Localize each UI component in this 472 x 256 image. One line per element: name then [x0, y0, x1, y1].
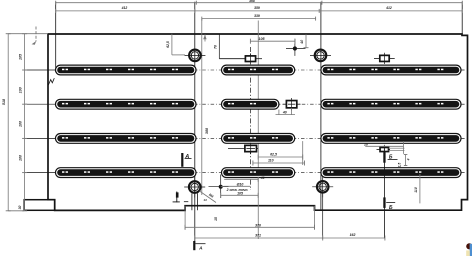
svg-text:Б: Б [389, 205, 393, 211]
dimension 371 and 162 bottom [195, 237, 385, 239]
row 4 centerline left [24, 172, 57, 174]
section marker A upper [181, 153, 191, 167]
dimension line top chain upper [56, 2, 463, 4]
slot row3 left [56, 134, 197, 144]
svg-text:110: 110 [414, 187, 418, 193]
extension below right bottom hole [322, 193, 324, 239]
slot row2 middle [222, 99, 279, 109]
section marker Б lower [383, 197, 395, 210]
row 3 centerline middle gap [194, 137, 224, 139]
svg-text:Ø10: Ø10 [237, 182, 244, 186]
svg-text:62,5: 62,5 [166, 41, 170, 48]
slot row1 middle [222, 65, 295, 75]
dimension line 339 [202, 18, 316, 20]
slot row3 right [321, 134, 461, 144]
hole bottom-right [312, 181, 333, 193]
svg-text:105: 105 [237, 191, 243, 195]
svg-text:339: 339 [254, 14, 260, 18]
svg-text:370: 370 [255, 223, 261, 227]
hole top-left [184, 50, 205, 62]
svg-text:40: 40 [282, 111, 287, 115]
leader M4 bottom left hole [200, 191, 217, 203]
svg-text:110: 110 [268, 159, 274, 163]
slot row1 right [321, 65, 461, 75]
small hole top middle [286, 39, 306, 56]
dim arm right spare hole b [389, 150, 405, 152]
small hole bottom middle [209, 175, 229, 199]
svg-text:15: 15 [214, 217, 218, 221]
svg-text:30: 30 [18, 206, 22, 210]
svg-text:412: 412 [121, 6, 128, 10]
slot row4 left [56, 168, 197, 178]
notch extension line right [314, 206, 316, 230]
slot row4 right [321, 168, 461, 178]
extension line middle slot center [257, 21, 259, 240]
row 4 centerline right end [459, 172, 465, 174]
svg-text:100: 100 [18, 155, 22, 161]
row 1 centerline right gap [293, 69, 323, 71]
row 2 centerline left [24, 103, 57, 105]
svg-text:20: 20 [363, 142, 368, 146]
svg-text:105: 105 [258, 37, 265, 41]
vertical dimension line 300 [201, 19, 203, 196]
slot row2 left [56, 99, 197, 109]
dimension line top chain lower 412/359/412 [56, 10, 463, 12]
corner watermark fragment [466, 243, 472, 256]
svg-text:300: 300 [205, 127, 209, 134]
extension line 302.7 [302, 141, 304, 165]
bottom-left foot [24, 200, 55, 211]
dimension 40 top right vertical [305, 34, 307, 47]
svg-text:62,5: 62,5 [270, 153, 277, 157]
crosshair v bottom-left hole [194, 177, 196, 198]
extension line right spare hole [403, 141, 405, 154]
datum flag bottom left [173, 192, 189, 203]
row 4 centerline middle gap [194, 172, 224, 174]
svg-text:412: 412 [385, 6, 392, 10]
vertical centerline through right hole column [320, 2, 322, 210]
svg-text:2 отв. точн.: 2 отв. точн. [226, 188, 249, 192]
slot row4 middle [222, 168, 295, 178]
extension line right plate edge [461, 2, 463, 34]
svg-text:А: А [198, 245, 203, 251]
dimension 110 right side vertical [419, 174, 421, 203]
hole side lines bottom-left [191, 193, 193, 210]
vertical centerline through left hole column [194, 2, 196, 241]
top edge extension to left dims [8, 33, 48, 35]
svg-text:105: 105 [18, 53, 22, 60]
dimension 62,5 row3 [258, 156, 303, 158]
svg-text:40: 40 [260, 176, 265, 180]
dimension line 105 top [250, 40, 295, 42]
svg-text:371: 371 [255, 233, 261, 237]
slot row2 right [321, 99, 461, 109]
crosshair v bottom-right hole [322, 176, 324, 197]
hole bottom-left [184, 181, 205, 193]
dimension 40 row2 [278, 110, 280, 116]
section marker Б upper [383, 152, 397, 163]
row 4 centerline right gap [293, 172, 323, 174]
dimension 40 bottom middle [224, 178, 258, 180]
section marker A lower [193, 241, 205, 251]
spare hole symbol top middle [219, 53, 262, 64]
extension line left slot end [55, 2, 57, 72]
extension line to top edge 70 [218, 34, 220, 59]
svg-text:А: А [184, 154, 189, 160]
svg-text:100: 100 [18, 87, 22, 93]
row 1 centerline right end [459, 69, 465, 71]
row 1 centerline left [24, 69, 57, 71]
row 2 centerline right end [459, 103, 465, 105]
svg-text:100: 100 [18, 121, 22, 127]
slot row1 left [56, 65, 197, 75]
slot row3 middle [222, 134, 295, 144]
dimension line left outer 518 [7, 34, 9, 211]
svg-text:368: 368 [249, 0, 255, 3]
row 3 centerline right gap [293, 137, 323, 139]
row 2 centerline right gap [277, 103, 323, 105]
row 3 centerline left [24, 137, 57, 139]
dimension 20 at right spare hole [365, 145, 403, 147]
plate outline [48, 34, 468, 210]
row 3 centerline right end [459, 137, 465, 139]
spare hole symbol right Б [377, 145, 391, 154]
dashed centerline middle hole pattern [249, 47, 251, 190]
hole top-right [310, 50, 331, 62]
section line Б-Б vertical [383, 146, 385, 238]
svg-text:518: 518 [2, 98, 6, 105]
surface finish mark left edge [48, 78, 54, 85]
row 1 centerline middle gap [194, 69, 224, 71]
spare hole symbol top right [374, 53, 395, 64]
spare hole symbol row2 [283, 98, 301, 111]
svg-text:1,5: 1,5 [398, 163, 402, 168]
svg-text:162: 162 [350, 233, 356, 237]
row 2 centerline middle gap [194, 103, 224, 105]
notch extension line left [184, 206, 186, 230]
dimension 62,5 left of top hole [171, 34, 173, 55]
svg-text:4: 4 [407, 158, 411, 161]
small dashed mark top left [35, 27, 37, 42]
svg-text:40: 40 [300, 40, 304, 45]
leader arrow at top edge x205 [204, 34, 206, 41]
spare hole symbol row3 [228, 143, 258, 155]
dimension 370 bottom [185, 226, 314, 228]
svg-text:359: 359 [254, 6, 260, 10]
bottom edge extension to left dims [8, 210, 24, 212]
svg-text:70: 70 [213, 45, 217, 49]
dim arm right spare hole a [389, 147, 405, 149]
note leader diameter 10 [221, 185, 225, 187]
small vertical dim bracket right [405, 155, 407, 166]
dimension 110 row3 [253, 162, 305, 164]
dimension 105 bottom middle [221, 194, 259, 196]
dimension line left chain [24, 34, 26, 211]
svg-text:14: 14 [203, 198, 207, 202]
